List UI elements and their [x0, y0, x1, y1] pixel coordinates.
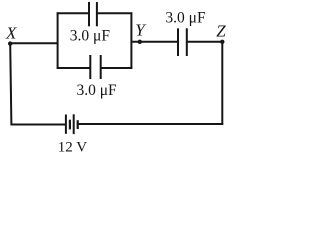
wire right edge of parallel network: [130, 12, 132, 69]
wire left edge of parallel network: [57, 12, 59, 69]
wire capacitor C3 to node Z: [187, 41, 223, 43]
svg-text:3.0 μF: 3.0 μF: [77, 82, 118, 99]
wire left outer (X down to bottom): [10, 43, 11, 125]
wire X to parallel network left edge: [10, 42, 58, 44]
wire bottom right (battery to corner): [78, 123, 224, 125]
wire top edge right segment: [97, 12, 132, 14]
node Z: [216, 21, 226, 44]
capacitor C1 3.0 uF (top): [70, 2, 111, 44]
wire top edge left segment: [57, 12, 89, 14]
wire bottom left (corner to battery): [11, 124, 66, 126]
svg-text:3.0 μF: 3.0 μF: [165, 10, 206, 27]
wire Y to capacitor C3: [131, 41, 178, 43]
wire right outer (Z down to bottom): [221, 42, 223, 125]
wire bottom edge left segment: [57, 67, 91, 69]
svg-text:3.0 μF: 3.0 μF: [70, 27, 111, 44]
wire bottom edge right segment: [101, 67, 133, 69]
capacitor C2 3.0 uF (bottom): [77, 55, 118, 99]
svg-text:Z: Z: [216, 21, 226, 40]
svg-text:12 V: 12 V: [58, 140, 87, 156]
node Y: [135, 20, 146, 44]
capacitor C3 3.0 uF: [165, 10, 206, 56]
battery B1 12 V: [58, 114, 87, 155]
svg-text:X: X: [5, 24, 17, 43]
node X: [5, 24, 17, 46]
svg-text:Y: Y: [135, 20, 146, 39]
